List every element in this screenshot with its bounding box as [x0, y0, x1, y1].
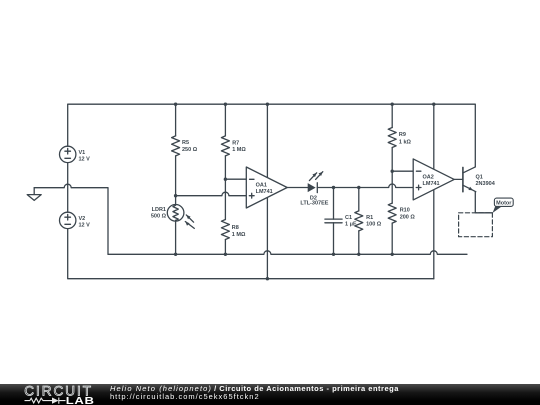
svg-text:1 MΩ: 1 MΩ — [232, 147, 246, 153]
wire ground to 0V rail (hops over V1-V2 wire) — [34, 184, 108, 254]
svg-text:12 V: 12 V — [79, 157, 91, 163]
svg-text:250 Ω: 250 Ω — [182, 147, 198, 153]
wire 0V rail (hops over OA1 and OA2 V- pins) — [108, 251, 467, 254]
footer credit line — [110, 385, 399, 393]
wire OA1 - input — [225, 178, 246, 180]
Motor label callout — [493, 198, 514, 213]
svg-text:V2: V2 — [79, 216, 86, 222]
svg-text:100 Ω: 100 Ω — [366, 222, 382, 228]
svg-text:R5: R5 — [182, 140, 189, 146]
svg-text:200 Ω: 200 Ω — [400, 215, 416, 221]
wire V1 minus to V2 plus — [67, 163, 69, 213]
svg-text:LAB: LAB — [66, 395, 95, 405]
wire top +12V rail from V1 to Q1 collector — [68, 104, 476, 167]
svg-text:R10: R10 — [400, 208, 410, 214]
svg-text:LDR1: LDR1 — [152, 207, 166, 213]
node top rail / R9 — [391, 103, 394, 106]
voltage source V1 12V — [59, 146, 90, 162]
resistor R10 200 ohm — [388, 171, 415, 254]
node top rail / OA2 V+ — [432, 103, 435, 106]
svg-text:Motor: Motor — [496, 201, 512, 207]
wire OA1 V- pin to -12V rail — [266, 197, 268, 278]
node 0V rail / LDR1 — [174, 253, 177, 256]
footer bar — [0, 384, 540, 405]
svg-text:1 MΩ: 1 MΩ — [232, 232, 246, 238]
footer url line — [110, 393, 260, 401]
resistor R5 250 ohm — [172, 104, 198, 204]
node -12V rail / OA1 V- — [266, 277, 269, 280]
node R9 / R10 / OA2 - input — [391, 170, 394, 173]
node top rail / R5 — [174, 103, 177, 106]
wire OA2 - input — [392, 170, 413, 172]
wire Q1 emitter to motor box — [475, 192, 492, 213]
svg-text:2N3904: 2N3904 — [476, 181, 496, 187]
motor dashed box — [459, 213, 493, 237]
node wire / R1 — [357, 186, 360, 189]
wire V2 minus to -12V rail — [68, 229, 434, 279]
transistor Q1 2N3904 — [463, 167, 496, 192]
svg-text:R8: R8 — [232, 225, 239, 231]
op-amp OA1 LM741 — [246, 167, 287, 208]
node wire / C1 — [332, 186, 335, 189]
svg-text:R7: R7 — [232, 140, 239, 146]
resistor R7 1 Mohm — [221, 104, 246, 179]
wire OA2 V- pin to -12V rail — [433, 190, 435, 279]
resistor R1 100 ohm — [355, 188, 382, 255]
node 0V rail / C1 — [332, 253, 335, 256]
svg-text:C1: C1 — [345, 215, 352, 221]
CircuitLab logo — [0, 384, 100, 405]
wire OA1 output to D2 — [287, 187, 308, 189]
svg-text:500 Ω: 500 Ω — [151, 213, 167, 219]
node top rail / OA1 V+ — [266, 103, 269, 106]
node R7 / R8 / OA1 - input — [224, 178, 227, 181]
svg-text:OA1: OA1 — [256, 183, 267, 189]
resistor R9 1 kohm — [388, 104, 411, 171]
ground — [27, 188, 41, 201]
wire D2 to OA2 + input (hops over R9-R10 wire) — [317, 184, 413, 188]
svg-text:1 kΩ: 1 kΩ — [399, 139, 412, 145]
svg-text:V1: V1 — [79, 150, 86, 156]
node 0V rail / R1 — [357, 253, 360, 256]
wire OA2 V+ pin — [433, 104, 435, 169]
capacitor C1 1uF — [325, 188, 357, 255]
svg-text:R9: R9 — [399, 132, 406, 138]
svg-text:OA2: OA2 — [423, 174, 434, 180]
node 0V rail / R10 — [391, 253, 394, 256]
node LDR1 / OA1 + input — [174, 194, 177, 197]
svg-text:R1: R1 — [366, 215, 373, 221]
resistor R8 1 Mohm — [221, 179, 246, 254]
svg-text:LTL-307EE: LTL-307EE — [300, 201, 328, 207]
node top rail / R7 — [224, 103, 227, 106]
LED D2 LTL-307EE — [300, 172, 328, 207]
svg-text:Q1: Q1 — [476, 174, 483, 180]
wire OA2 output to Q1 base — [454, 178, 463, 180]
svg-text:LM741: LM741 — [423, 181, 440, 187]
wire OA1 V+ pin — [266, 104, 268, 177]
voltage source V2 12V — [59, 212, 90, 228]
node 0V rail / R8 — [224, 253, 227, 256]
svg-text:LM741: LM741 — [256, 189, 273, 195]
svg-text:12 V: 12 V — [79, 223, 91, 229]
wire LDR1 to OA1 + input (hops over R7-R8 wire) — [176, 192, 247, 195]
op-amp OA2 LM741 — [413, 159, 454, 200]
photoresistor LDR1 500 ohm — [151, 205, 194, 255]
